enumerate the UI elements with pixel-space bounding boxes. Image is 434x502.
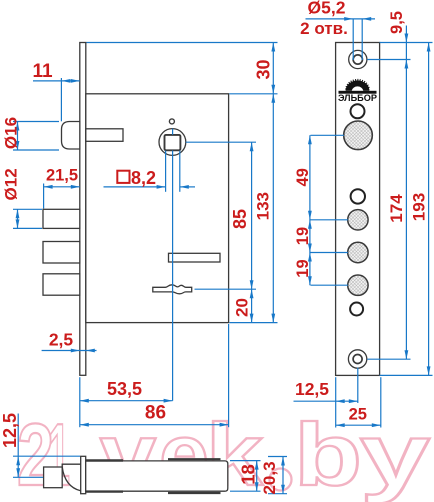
svg-text:53,5: 53,5 [107, 379, 142, 399]
big hatched hole (spindle) [344, 121, 373, 150]
svg-text:193: 193 [409, 193, 428, 221]
deadbolt 1 (side view) [43, 209, 80, 228]
dim 21,5 [44, 184, 80, 209]
dim 2,5 [42, 350, 97, 352]
body thick edge bottom left [86, 490, 123, 492]
watermark 21vek.by [17, 405, 430, 502]
dim square 8,2 text [117, 171, 129, 183]
svg-text:18: 18 [237, 464, 258, 485]
svg-text:12,5: 12,5 [295, 379, 329, 399]
svg-text:49: 49 [294, 168, 312, 186]
svg-text:2 отв.: 2 отв. [300, 19, 348, 38]
cover tab bottom [168, 492, 221, 494]
lock body (side view) [86, 94, 229, 323]
top screw hole inner [353, 55, 362, 64]
cover tab top [168, 458, 221, 460]
spindle follower circle [159, 129, 186, 156]
ELBOR logo bar [339, 91, 377, 94]
bottom screw hole inner [353, 355, 362, 364]
hatched bolt hole C [348, 275, 368, 295]
latch bolt bar inside body [86, 129, 123, 142]
dim 12,5 bottom-right [294, 368, 358, 428]
deadbolt 2 (side view) [43, 242, 80, 264]
dim 25 [336, 377, 381, 427]
svg-text:Ø5,2: Ø5,2 [308, 0, 346, 18]
dim 86 [80, 324, 229, 427]
svg-text:86: 86 [145, 403, 166, 424]
square spindle hole 8.2 [165, 135, 181, 150]
dim 20,3 [268, 457, 287, 494]
dim 18 [230, 461, 261, 492]
top screw hole outer [349, 50, 367, 68]
dim 11 line [33, 78, 80, 121]
body thick edge top left [86, 459, 123, 461]
svg-text:20: 20 [232, 298, 251, 317]
deadbolt 3 (side view) [43, 274, 80, 295]
dim 30/133 line [87, 43, 278, 323]
key bit profile [153, 285, 192, 294]
svg-text:85: 85 [230, 209, 250, 229]
svg-text:11: 11 [32, 61, 53, 82]
dim 8,2 extension+arrows [104, 151, 196, 192]
latch bevel wedge (bottom view) [62, 464, 80, 491]
faceplate (front view) [336, 43, 380, 376]
svg-text:9,5: 9,5 [388, 11, 406, 34]
small hole low [350, 303, 363, 316]
svg-text:19: 19 [294, 227, 312, 245]
dim O12 [13, 209, 42, 228]
bottom screw hole outer [348, 350, 366, 368]
hatched bolt hole B [348, 242, 368, 262]
dim O16 [13, 122, 59, 151]
dim 85/20 line [186, 142, 256, 322]
svg-text:12,5: 12,5 [0, 413, 20, 448]
svg-text:20,3: 20,3 [260, 461, 279, 494]
small hole mid [351, 189, 365, 203]
dim 49/19/19 line [310, 135, 348, 285]
dim 12,5 bottom-left [13, 414, 80, 478]
small hole below logo [351, 104, 365, 118]
svg-text:19: 19 [294, 259, 312, 277]
svg-text:ЭЛЬБОР: ЭЛЬБОР [338, 93, 377, 103]
svg-text:2,5: 2,5 [49, 330, 74, 350]
latch bolt head (side view) [62, 122, 80, 150]
svg-text:Ø12: Ø12 [1, 168, 20, 200]
svg-text:8,2: 8,2 [131, 168, 156, 188]
dim O5,2 top [306, 19, 376, 60]
dim 193 line [380, 43, 433, 376]
dim 9,5 / 174 line [367, 26, 410, 360]
small pin above spindle [169, 119, 174, 124]
faceplate (side view) [80, 43, 86, 376]
svg-text:y: y [360, 405, 430, 502]
lock body (bottom view) [86, 461, 228, 491]
hatched bolt hole A [348, 210, 368, 230]
svg-text:Ø16: Ø16 [1, 117, 20, 149]
svg-text:133: 133 [253, 192, 272, 220]
svg-text:25: 25 [349, 406, 367, 424]
latch head (bottom view) [44, 467, 63, 488]
ELBOR logo fan [346, 80, 370, 90]
dim 53,5 [80, 377, 173, 427]
faceplate cross-section (bottom view) [81, 456, 86, 493]
svg-text:174: 174 [387, 194, 406, 223]
svg-text:21,5: 21,5 [46, 167, 78, 185]
svg-text:30: 30 [253, 59, 273, 79]
handle follower bar [169, 253, 221, 262]
center line of spindle [172, 129, 174, 401]
